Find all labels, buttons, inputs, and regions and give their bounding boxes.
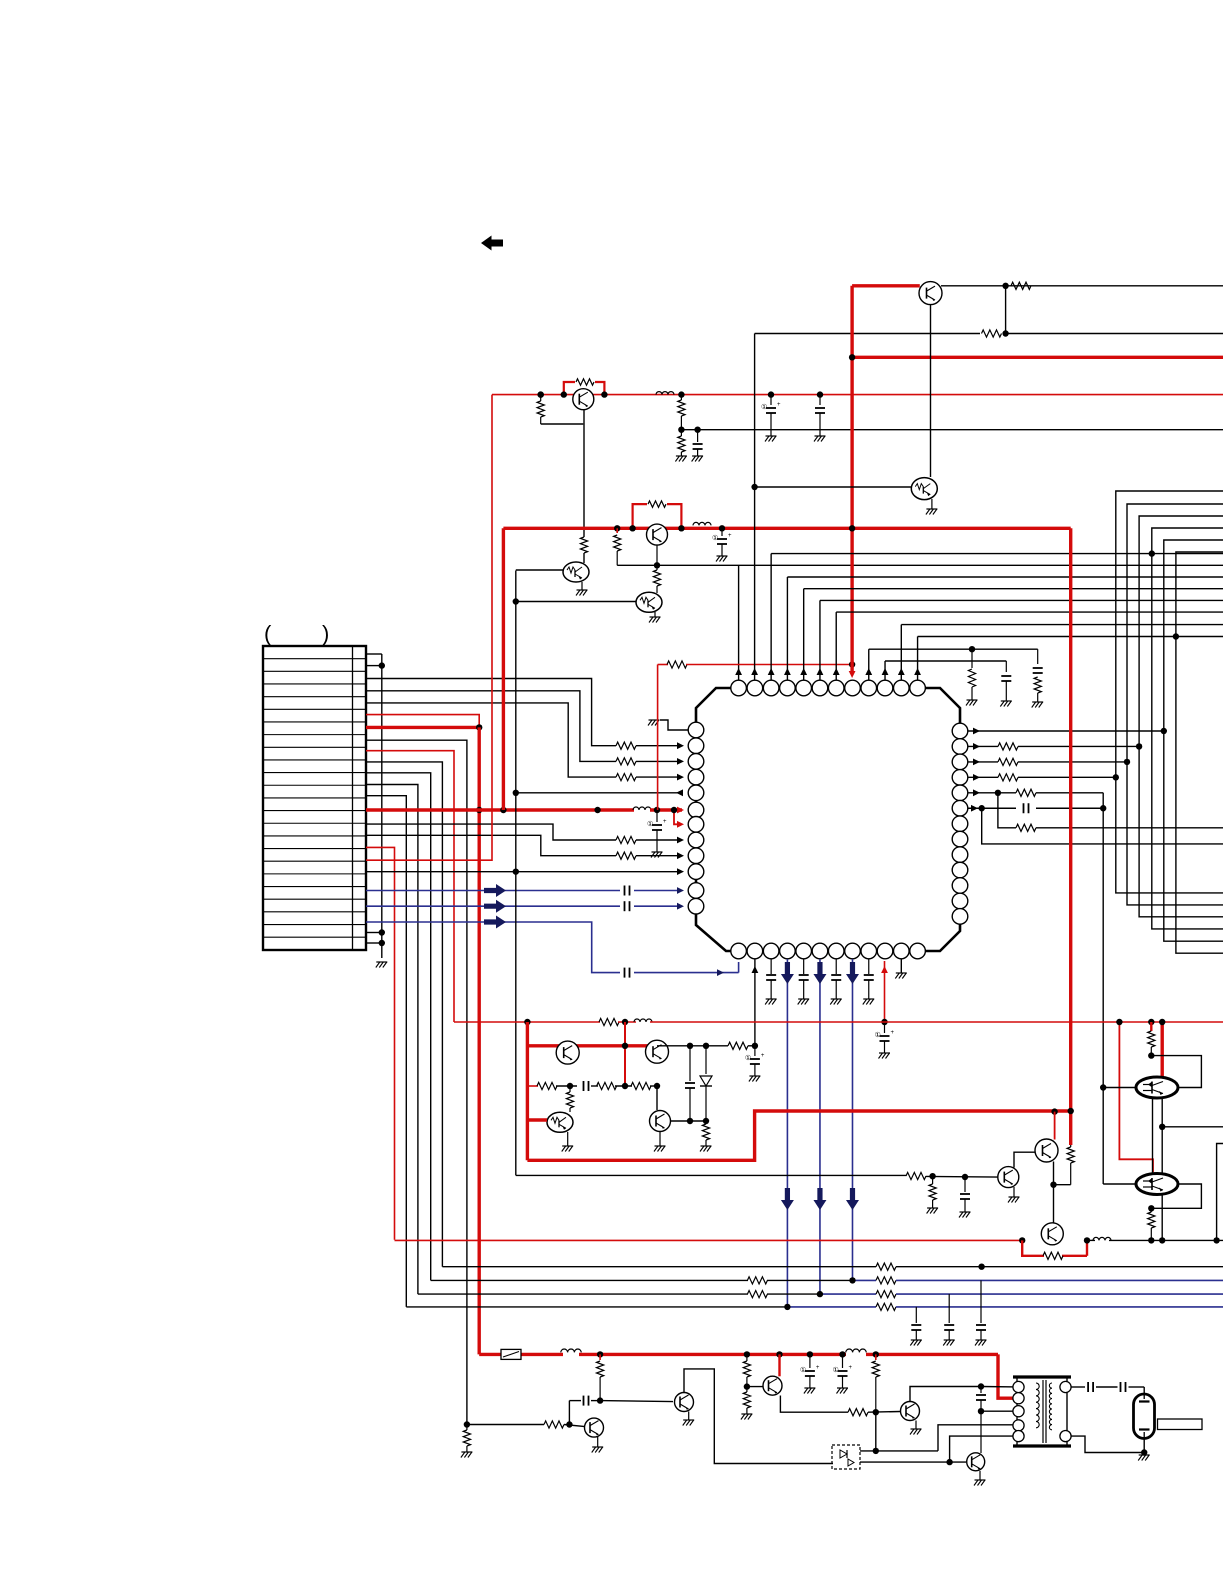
svg-text:①: ① [833,1366,839,1374]
junction v4 tap [1149,550,1155,556]
arrow into B1 wire [717,969,724,976]
resistor row y1086 [527,1085,538,1087]
wire CN1 pin16 to IC L9 [366,835,616,855]
wire CN1 pin5 to IC pin L4 [366,703,616,777]
wire Q6 base to x515 [516,601,636,603]
cap C-B5 [803,959,805,974]
junction red 852/528 [849,525,855,531]
transistor Q18 [967,1453,985,1471]
wire CN1 pin2 stub [366,665,382,667]
junction 706/1045 [703,1043,709,1049]
ground C965 [960,1211,971,1213]
wire CN1 pin19 to L10 [366,871,516,873]
wire L1 to ground [660,720,688,730]
black rail y333 [755,333,980,335]
junction 981/1386 [978,1383,984,1389]
junction 1161/1240 [1159,1237,1165,1243]
blue wire CN1 pin22 to IC B1 [366,922,620,973]
wire IC T7 lead up [835,612,837,680]
junction rail 842 [839,1351,845,1357]
junction 569/1424 [566,1421,572,1427]
cap C949b [948,1294,950,1323]
wire CN1 pin10 [366,762,442,1267]
resistor R1151 [1148,1031,1155,1047]
wire base Q14 [600,1401,673,1402]
wire IC T12 lead [917,637,919,681]
wire B11 ground [900,959,902,973]
resistor R-bypass2 [648,501,666,507]
wire 1070 to 1053 [1054,1184,1071,1186]
junction byp2 b [678,525,684,531]
cap C820 on red [819,395,821,405]
wire CN1 pin1 stub [366,653,382,655]
node line y661 [885,660,1006,662]
cap series C-L12 [624,901,626,911]
resistor R681 upper [680,395,682,400]
wire IC T10 lead [884,661,886,680]
IC U1 top pins [731,680,747,696]
resistor R861 [848,1409,868,1416]
wire into L2 [636,745,682,747]
wire pin3 link [981,1410,1019,1412]
wire y827 to edge [998,793,1016,828]
resistor R-L3 [616,758,636,765]
wire IC T3 lead up [770,554,772,680]
connector CN1 body [263,646,366,950]
wire CN1 pin6 red [366,715,479,728]
vertical x1103 [1102,793,1104,1184]
wire Q1 collector right [941,285,1223,287]
loop pow2 right [1151,1184,1201,1208]
arrow into L6 [677,807,684,814]
power transistor PQ2 [1136,1174,1178,1195]
resistor R-L2 [616,742,636,749]
ground R932 [927,1207,938,1209]
resistor R-Q13 [1043,1252,1063,1259]
vertical x981 trans [980,1387,982,1394]
cap C-B7 [835,959,837,974]
blue arrow 2 [484,900,506,913]
wire IC T9 lead [868,649,870,680]
svg-text:+: + [891,1030,895,1036]
ecap C809 [809,1354,811,1368]
svg-text:①: ① [712,534,718,542]
resistor R617 [616,528,618,533]
IC U1 right pins [952,723,968,739]
junction 949/1462 [946,1459,952,1465]
main red 9V wire CN1 pin14 to IC L6 [366,808,634,811]
cap C690 [689,1046,691,1081]
thin red vertical x657 [657,665,659,811]
wire into L4 [636,776,682,778]
junction 625/1045 [622,1043,628,1049]
bus line y636 [918,636,1223,638]
wire Q2 base left [755,486,911,488]
inductor L-b2 [846,1349,866,1352]
junction 570/1086 [567,1083,573,1089]
red power vertical x479 down to bottom rail [478,727,481,1354]
junction R6 end [1100,805,1106,811]
transistor Q7 [556,1041,579,1064]
wire pin5 link [950,1436,1019,1462]
wire pow2 emitter [1161,1195,1163,1241]
resistor-cap 1037 [1037,649,1039,664]
resistor R706 [705,1121,707,1124]
junction R6 node [979,805,985,811]
ground Q2 [931,499,933,509]
junction 981/1411 [978,1408,984,1414]
blue arrow 1 [484,884,506,897]
junction red 681 [678,391,684,397]
transistor Q11 [1035,1139,1058,1162]
wire y1306 [406,1306,787,1308]
junction rail 809 [807,1351,813,1357]
wire L10 entry [516,871,682,873]
wire Q10 right [671,1120,707,1122]
blue B6 down [819,959,821,1294]
junction CN1 pin23 [379,929,385,935]
junction 1216/1240 [1213,1237,1219,1243]
wire 569 down [568,1401,570,1425]
inductor on red y394 [656,392,674,395]
wire to Q16 base [747,1386,763,1388]
junction 625/1086 [622,1083,628,1089]
blue arrow 3 [484,916,506,929]
blue wire CN1 pin21 to IC L12 [366,905,620,907]
resistor R-bypass1 [576,379,594,385]
transistor Q15 [675,1393,694,1412]
blue wire CN1 pin20 to IC L11 [366,890,620,892]
blue y1294 [820,1293,876,1295]
transistor Q1 top right [919,282,942,305]
junction red 1162 [1159,1019,1165,1025]
thin red wire y664 [658,664,668,666]
resistor R-L8 [616,836,636,843]
red feed T1 [852,284,920,287]
junction 466/1424 [464,1421,470,1427]
red thin x1119 drop [1119,1022,1153,1172]
junction byp2 a [629,525,635,531]
junction 1005/333 [1002,330,1008,336]
junction red 884/1022 [881,1019,887,1025]
transistor Q2 below Q1 [911,478,937,500]
svg-text:①: ① [745,1054,751,1062]
junction R5 node [995,790,1001,796]
wire Q17 collector [910,1387,981,1402]
junction red 540 [538,391,544,397]
junction 600/1400 [597,1397,603,1403]
junction red 1151 [1148,1019,1154,1025]
resistor R746 [746,1354,748,1361]
ground Q17 [915,1421,917,1430]
inductor on red y528 [693,522,711,525]
junction red 722 [719,525,725,531]
junction 1151/1208 [1148,1205,1154,1211]
svg-text:+: + [728,533,732,539]
blue B4 down [786,959,788,1307]
label box [1158,1419,1203,1430]
wire L5 out [516,792,682,794]
junction bypass b [601,391,607,397]
arrow into L12 [677,903,684,910]
svg-text:①: ① [875,1031,881,1039]
ground R706 [701,1145,712,1147]
red rail y1045 [527,1044,657,1047]
vertical 1005 [1005,286,1007,334]
junction rail 746 [744,1351,750,1357]
cap C916b [915,1307,917,1323]
arrow into L11 [677,887,684,894]
red vertical x1070 [1069,528,1072,1145]
cap C1006 [1005,661,1007,672]
cap C965 [964,1177,966,1192]
wire Q15 collector [684,1369,833,1464]
bus corner top 1 [1116,491,1223,893]
ground C1006 [1001,700,1012,702]
cap C-B3 [770,959,772,974]
resistor R-L9 [616,852,636,859]
wire CN1 pin4 to IC pin L3 [366,691,616,762]
ground 1037 [1032,701,1043,703]
junction 875/1412 [873,1409,879,1415]
ground C820 [815,435,826,437]
wire R3 [968,761,998,763]
wire into L8 [636,839,682,841]
red thick x1162 drop [1160,1022,1163,1078]
junction rail 779 [776,1351,782,1357]
cap C697 [697,430,699,442]
resistor R681 lower [680,430,682,436]
ground tube [1139,1454,1150,1456]
wire into L3 [636,760,682,762]
red vertical x503 [502,528,505,810]
transformer T1 body [1017,1377,1067,1446]
red Q9 feed [527,1118,547,1121]
wire R6 [968,807,1016,809]
red loop Q13 [1022,1240,1044,1255]
red branch to L7 [674,810,678,824]
tube V1 body [1134,1394,1155,1439]
blue y1306 [787,1306,876,1308]
wire CN1 pin17 red [366,847,395,1239]
black rail Q8 right [657,1045,728,1047]
junction red 852/357 [849,354,855,360]
ground R466 [461,1451,472,1453]
bus corner top 6 [1176,552,1223,953]
junction red 1022/1240 [1019,1237,1025,1243]
junction 706/1121 [703,1118,709,1124]
wire CN1 pin7 red thick [366,726,479,729]
junction bypass c [538,391,544,397]
wire opto bottom right [860,1461,966,1463]
transistor Q10 [650,1111,671,1132]
wire Q1 emitter down [930,305,932,477]
wire y1294 [418,1293,748,1295]
black vertical x584 Q3 emitter [583,410,585,537]
ground R972 [967,699,978,701]
bus corner top 3 [1139,516,1223,917]
svg-text:①: ① [761,403,767,411]
ecap C842 [842,1354,844,1368]
wire CN1 pin13 [366,796,406,1307]
black y1240 right [1087,1239,1095,1241]
transistor Q17 [901,1402,920,1421]
black rail y429 [681,429,1223,431]
junction red 852/664 [849,661,855,667]
wire 875 down [875,1412,877,1451]
ground C-L6 [652,851,663,853]
junction red x479 on main red [476,807,482,813]
bypass loop red Q3 [564,382,575,395]
junction 746/1386 [744,1383,750,1389]
junction 690/1121 [687,1118,693,1124]
junction x515 L5 [513,790,519,796]
wire IC T4 lead up [786,577,788,680]
ecap C-L6 [656,810,658,822]
ground R746b [741,1413,752,1415]
wire R5 [968,792,1016,794]
bus corner top 2 [1127,504,1223,905]
ground R681 [676,455,687,457]
bus line y577 [787,576,1223,578]
wire Q8 emitter [656,1086,658,1110]
cap series C-B1 [624,968,626,978]
wire Q5 base [516,569,563,571]
junction red 1119 [1116,1019,1122,1025]
junction rail 875 [873,1351,879,1357]
ground C884 [879,1052,890,1054]
resistor R972 [971,649,973,668]
junction 1087/1240 [1084,1237,1090,1243]
junction 1053/1184 [1050,1182,1056,1188]
red drop x527 [526,1022,529,1160]
cap C586 [591,1400,600,1402]
red feed Q11 [1054,1112,1056,1140]
bus corner top 5 [1164,540,1223,941]
junction Q4 emitter node [654,562,660,568]
junction R3 bus [1124,759,1130,765]
wires between pow transistors [1152,1098,1154,1174]
red rail y1240 [395,1239,1023,1241]
resistor R1151b [1150,1208,1152,1212]
ground Q9 [567,1132,569,1146]
junction 754/487 [751,484,757,490]
transistor Q4 mid [647,524,668,545]
junction red 820 [817,391,823,397]
junction red 625/1022 [622,1019,628,1025]
node line y649 [869,648,1038,650]
ground Q18 [979,1471,981,1480]
wire Q11 emitter [1053,1162,1055,1224]
ground C771 [766,435,777,437]
red Q16 collector [778,1354,780,1376]
wire sec top [1071,1386,1085,1388]
wire y1126 to edge [1162,1126,1223,1128]
wire Q4 emitter [656,545,658,565]
junction red 527/1022 [524,1019,530,1025]
ellipse transistor Q9 [547,1112,573,1132]
junction red 617 [614,525,620,531]
wire R4 [968,776,998,778]
junction 965/1177 [962,1174,968,1180]
wire R1 [968,730,1164,732]
junction v6 tap [1173,633,1179,639]
junction 1151/1240 [1148,1237,1154,1243]
resistor R1070 [1070,1145,1072,1147]
wire CN1 pin8 [366,740,467,1424]
junction 1103/1087 [1100,1084,1106,1090]
junction red branch [671,807,677,813]
transformer T1 pins [1013,1381,1024,1392]
junction x515 Q6 [513,598,519,604]
wire ground bus vertical x382 [381,654,383,958]
resistor R570v [569,1086,571,1092]
svg-text:): ) [322,621,329,646]
svg-text:①: ① [647,820,653,828]
junction 1161/1126 [1159,1124,1165,1130]
wire CN1 pin23 stub [366,932,382,934]
ground Q14 [597,1437,599,1447]
ground Q5 [581,582,583,590]
junction 754/1045 [752,1043,758,1049]
cap series C-L11 [624,886,626,896]
junction 1070/1111 [1068,1108,1074,1114]
ground Q12 [1013,1187,1015,1197]
wire IC T6 lead up [819,600,821,680]
wire y1280 [431,1279,748,1281]
junction R1 bus [1161,728,1167,734]
transistor Q3 top [573,389,594,410]
wire Q12 collector [1014,1152,1036,1167]
wire CN1 pin18 red up [366,395,492,861]
resistor R746b [746,1387,748,1392]
corner x1216 [1217,1144,1223,1241]
junction R4 bus [1113,774,1119,780]
junction 932/1176 [929,1173,935,1179]
thin red rail y394 [492,394,1223,396]
wire y1266 [442,1266,876,1268]
resistor R600 [599,1354,601,1360]
junction 819/1294 [817,1291,823,1297]
power transistor PQ1 [1136,1077,1178,1098]
wire Q16 emitter [780,1396,848,1413]
junction CN1 pin2 [379,662,385,668]
junction red pin7 [476,724,482,730]
svg-text:+: + [849,1365,853,1371]
junction 690/1045 [687,1043,693,1049]
wire y1175 [516,1174,906,1176]
black vertical x754 pin T2 [754,334,756,681]
junction 1005/285 [1002,283,1008,289]
junction bypass a [561,391,567,397]
junction red 771 [768,391,774,397]
blue y1280 [852,1279,876,1281]
junction R2 bus [1136,743,1142,749]
bus line y600 [820,599,1223,601]
wire 1103 to pow2 [1103,1183,1136,1185]
transistor Q14 [585,1418,604,1437]
resistor R1005 on y285 [1011,282,1031,289]
optocoupler PC1 [832,1445,860,1469]
red bottom rail y1354 [479,1353,501,1356]
red B10 up from 1022 [884,961,886,1022]
fuse F1 [501,1349,521,1359]
ellipse transistor Q6 x649 [636,592,662,612]
wire 540 to base [541,423,584,425]
ground C722 [717,555,728,557]
bus line y612 [836,611,1223,613]
wire pin4 link [938,1425,1019,1451]
